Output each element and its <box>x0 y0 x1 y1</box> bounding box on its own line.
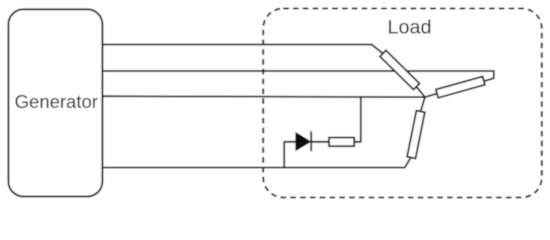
svg-text:Load: Load <box>387 17 431 39</box>
svg-text:Generator: Generator <box>15 91 98 112</box>
